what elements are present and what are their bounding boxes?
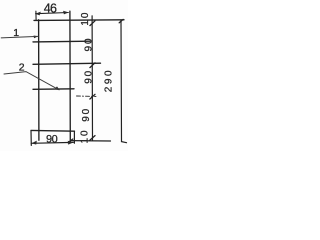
svg-text:90: 90 — [83, 37, 94, 52]
svg-text:10: 10 — [80, 11, 91, 26]
svg-text:2: 2 — [19, 62, 25, 74]
svg-text:290: 290 — [104, 68, 115, 93]
svg-text:90: 90 — [81, 107, 92, 122]
svg-text:90: 90 — [84, 69, 95, 84]
svg-text:10: 10 — [80, 129, 91, 144]
svg-text:46: 46 — [44, 1, 57, 15]
svg-text:90: 90 — [46, 134, 58, 146]
svg-text:1: 1 — [13, 27, 19, 39]
